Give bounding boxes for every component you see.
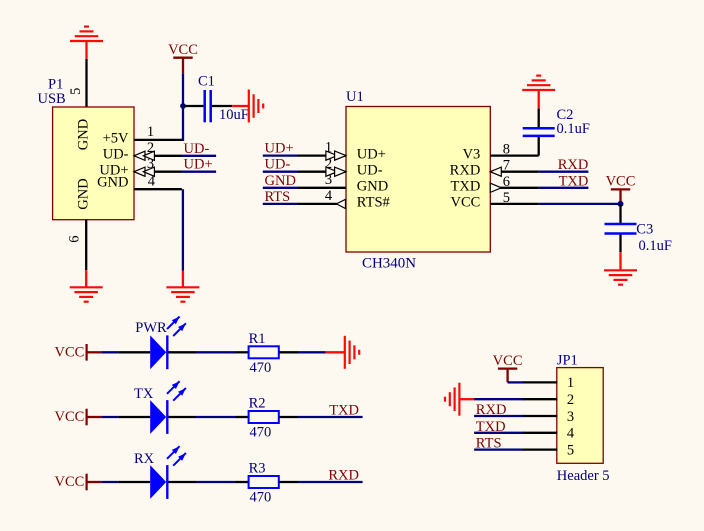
U1 pin 4 bbox=[297, 203, 346, 205]
wire U1 pin 5 to VCC/C3 bbox=[539, 203, 621, 205]
svg-text:3: 3 bbox=[147, 156, 154, 172]
svg-text:TXD: TXD bbox=[450, 179, 480, 195]
resistor R3 left lead bbox=[236, 481, 249, 483]
resistor R1 left lead bbox=[236, 351, 249, 353]
capacitor C1 left lead bbox=[184, 105, 203, 107]
svg-text:10uF: 10uF bbox=[219, 107, 249, 123]
svg-text:0.1uF: 0.1uF bbox=[639, 238, 672, 254]
header JP1 body bbox=[557, 368, 603, 464]
P1 pin 2 (UD-) bbox=[134, 155, 182, 157]
svg-text:6: 6 bbox=[66, 235, 82, 242]
svg-text:UD+: UD+ bbox=[265, 141, 294, 157]
wire ground to JP1 pin 2 bbox=[474, 398, 523, 400]
svg-text:JP1: JP1 bbox=[557, 352, 578, 368]
wire UD- stub at U1 pin 2 bbox=[263, 171, 298, 173]
capacitor C2 plates bbox=[523, 127, 555, 130]
svg-text:+5V: +5V bbox=[103, 131, 129, 147]
wire LED to R3 bbox=[196, 481, 236, 483]
svg-text:VCC: VCC bbox=[54, 474, 84, 490]
svg-text:VCC: VCC bbox=[54, 345, 84, 361]
svg-text:2: 2 bbox=[567, 392, 574, 408]
svg-text:0.1uF: 0.1uF bbox=[557, 121, 590, 137]
svg-text:GND: GND bbox=[75, 119, 91, 150]
resistor R1 body bbox=[249, 346, 279, 358]
ground symbol right of R1 bbox=[344, 336, 346, 369]
LED PWR emission arrows bbox=[167, 317, 180, 330]
wire VCC to LED PWR bbox=[101, 351, 118, 353]
wire VCC to LED TX bbox=[101, 416, 118, 418]
wire VCC to P1 pin 1 bbox=[181, 74, 183, 140]
wire TXD stub at U1 pin 6 bbox=[539, 187, 589, 189]
svg-text:470: 470 bbox=[250, 425, 272, 441]
svg-text:RX: RX bbox=[134, 451, 155, 467]
connector P1 body bbox=[53, 107, 134, 220]
svg-text:UD-: UD- bbox=[265, 157, 291, 173]
LED PWR anode lead bbox=[118, 351, 150, 353]
svg-text:GND: GND bbox=[357, 179, 388, 195]
svg-text:5: 5 bbox=[567, 442, 574, 458]
svg-text:VCC: VCC bbox=[54, 409, 84, 425]
svg-text:VCC: VCC bbox=[493, 353, 523, 369]
wire RXD stub at JP1 pin 3 bbox=[474, 415, 523, 417]
resistor R2 left lead bbox=[236, 416, 249, 418]
svg-text:Header 5: Header 5 bbox=[557, 468, 610, 484]
U1 pin 8 bbox=[490, 154, 538, 156]
U1 pin 7 arrow bbox=[490, 167, 501, 176]
P1 pin 4 (GND) bbox=[134, 188, 182, 190]
capacitor C1 plates bbox=[203, 90, 206, 122]
svg-text:CH340N: CH340N bbox=[362, 256, 417, 272]
wire UD+ stub at P1 pin 3 bbox=[182, 171, 217, 173]
svg-text:TXD: TXD bbox=[476, 419, 506, 435]
svg-text:RTS: RTS bbox=[265, 189, 291, 205]
ground symbol below P1 pin 6 bbox=[70, 286, 103, 288]
U1 pin 2 arrows bbox=[326, 167, 337, 176]
wire RTS stub at U1 pin 4 bbox=[263, 203, 298, 205]
LED RX anode lead bbox=[118, 481, 150, 483]
U1 pin 4 arrow bbox=[337, 199, 346, 208]
resistor R2 right lead bbox=[279, 416, 298, 418]
svg-text:TXD: TXD bbox=[329, 403, 359, 419]
wire UD+ stub at U1 pin 1 bbox=[263, 154, 298, 156]
P1 pin 1 (+5V) bbox=[134, 139, 182, 141]
svg-text:R2: R2 bbox=[249, 396, 266, 412]
wire GND stub at U1 pin 3 bbox=[263, 187, 298, 189]
U1 pin 1 bbox=[297, 154, 346, 156]
ground symbol above P1 pin 5 bbox=[70, 40, 103, 42]
U1 pin 2 bbox=[297, 171, 346, 173]
svg-text:UD+: UD+ bbox=[184, 157, 213, 173]
U1 pin 7 bbox=[490, 171, 538, 173]
svg-text:U1: U1 bbox=[346, 89, 364, 105]
svg-text:R1: R1 bbox=[249, 331, 266, 347]
JP1 pin 2 bbox=[523, 398, 558, 400]
wire RXD stub at R3 bbox=[298, 481, 363, 483]
svg-text:5: 5 bbox=[503, 190, 510, 206]
svg-text:3: 3 bbox=[567, 409, 574, 425]
wire R1 to ground bbox=[298, 351, 326, 353]
svg-text:470: 470 bbox=[250, 490, 272, 506]
svg-text:VCC: VCC bbox=[606, 174, 636, 190]
JP1 pin 3 bbox=[523, 415, 558, 417]
wire VCC to JP1 pin 1 bbox=[508, 381, 524, 383]
wire - P1 pin 5 to ground bbox=[85, 59, 87, 108]
svg-text:VCC: VCC bbox=[450, 195, 480, 211]
svg-text:6: 6 bbox=[503, 174, 510, 190]
wire P1 pin 4 to ground bbox=[182, 189, 184, 270]
wire LED to R1 bbox=[196, 351, 236, 353]
IC U1 body bbox=[346, 107, 490, 253]
svg-text:RTS#: RTS# bbox=[357, 195, 390, 211]
svg-text:RTS: RTS bbox=[476, 436, 502, 452]
U1 pin 5 bbox=[490, 203, 538, 205]
LED TX cathode lead bbox=[168, 416, 196, 418]
LED PWR cathode lead bbox=[168, 351, 196, 353]
svg-text:RXD: RXD bbox=[450, 163, 481, 179]
svg-text:1: 1 bbox=[567, 375, 574, 391]
svg-text:VCC: VCC bbox=[168, 42, 198, 58]
wire UD- stub at P1 pin 2 bbox=[182, 155, 217, 157]
ground symbol above C2 bbox=[522, 89, 555, 91]
wire RXD stub at U1 pin 7 bbox=[539, 171, 589, 173]
svg-text:1: 1 bbox=[147, 124, 154, 140]
P1 pin 3 (UD+) bbox=[134, 171, 182, 173]
U1 pin 1 arrows bbox=[326, 151, 337, 160]
capacitor C3 bottom lead bbox=[619, 235, 621, 253]
junction node VCC/C1 bbox=[180, 103, 186, 109]
svg-text:GND: GND bbox=[265, 173, 296, 189]
wire U1 pin 8 to C2 bbox=[538, 137, 540, 156]
svg-text:UD+: UD+ bbox=[357, 146, 386, 162]
capacitor C2 top lead bbox=[538, 109, 540, 127]
ground symbol below P1 pin 4 wire bbox=[166, 286, 199, 288]
svg-text:8: 8 bbox=[503, 142, 510, 158]
capacitor C3 top lead bbox=[619, 204, 621, 224]
LED TX anode lead bbox=[118, 416, 150, 418]
svg-text:TXD: TXD bbox=[559, 173, 589, 189]
JP1 pin 1 bbox=[523, 381, 558, 383]
svg-text:TX: TX bbox=[134, 386, 154, 402]
resistor R2 body bbox=[249, 411, 279, 423]
svg-text:C1: C1 bbox=[198, 74, 215, 90]
svg-text:7: 7 bbox=[503, 158, 510, 174]
svg-text:USB: USB bbox=[38, 91, 66, 107]
JP1 pin 4 bbox=[523, 432, 558, 434]
LED RX cathode lead bbox=[168, 481, 196, 483]
svg-text:GND: GND bbox=[97, 175, 128, 191]
ground symbol right of C1 bbox=[248, 90, 250, 123]
LED RX emission arrows bbox=[167, 446, 180, 459]
svg-text:RXD: RXD bbox=[328, 468, 359, 484]
svg-text:GND: GND bbox=[75, 178, 91, 209]
svg-text:PWR: PWR bbox=[135, 320, 167, 336]
ground symbol below C3 bbox=[604, 269, 637, 271]
LED TX symbol bbox=[150, 400, 166, 434]
svg-text:R3: R3 bbox=[249, 461, 266, 477]
svg-text:470: 470 bbox=[250, 360, 272, 376]
svg-text:2: 2 bbox=[147, 140, 154, 156]
U1 pin 3 bbox=[297, 187, 346, 189]
P1 pin 6 wire to ground bbox=[85, 220, 87, 270]
JP1 pin 5 bbox=[523, 448, 558, 450]
svg-text:5: 5 bbox=[68, 88, 84, 95]
svg-text:4: 4 bbox=[148, 173, 156, 189]
ground symbol left of JP1 pin 2 bbox=[458, 383, 460, 416]
capacitor C3 plates bbox=[605, 223, 637, 226]
svg-text:4: 4 bbox=[567, 426, 575, 442]
svg-text:4: 4 bbox=[325, 188, 333, 204]
wire TXD stub at R2 bbox=[298, 416, 363, 418]
svg-text:RXD: RXD bbox=[476, 402, 507, 418]
resistor R3 right lead bbox=[279, 481, 298, 483]
svg-text:UD-: UD- bbox=[103, 147, 129, 163]
svg-text:UD-: UD- bbox=[184, 141, 210, 157]
svg-text:C3: C3 bbox=[636, 222, 653, 238]
svg-text:P1: P1 bbox=[48, 76, 63, 92]
junction node VCC/C3 bbox=[618, 201, 624, 207]
LED PWR symbol bbox=[150, 335, 166, 369]
wire TXD stub at JP1 pin 4 bbox=[474, 432, 523, 434]
svg-text:UD-: UD- bbox=[357, 163, 383, 179]
capacitor C1 right lead bbox=[212, 105, 232, 107]
wire LED to R2 bbox=[196, 416, 236, 418]
U1 pin 6 bbox=[490, 187, 538, 189]
U1 pin 6 arrow bbox=[490, 183, 501, 192]
wire VCC to LED RX bbox=[101, 481, 118, 483]
svg-text:RXD: RXD bbox=[558, 157, 589, 173]
svg-text:V3: V3 bbox=[463, 146, 481, 162]
LED TX emission arrows bbox=[167, 381, 180, 394]
resistor R1 right lead bbox=[279, 351, 298, 353]
resistor R3 body bbox=[249, 476, 279, 488]
LED RX symbol bbox=[150, 465, 166, 499]
wire RTS stub at JP1 pin 5 bbox=[474, 448, 523, 450]
